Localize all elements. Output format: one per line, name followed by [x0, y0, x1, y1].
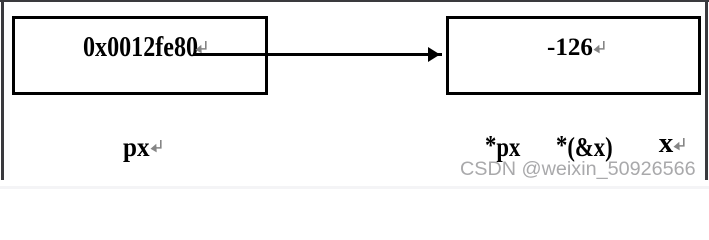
paragraph mark after x label [673, 138, 686, 151]
outer frame top border [0, 0, 709, 2]
outer frame left border [1, 0, 4, 180]
label x under right box [659, 129, 674, 158]
arrow head [428, 47, 440, 62]
label *px under right box [485, 134, 520, 161]
watermark CSDN [460, 159, 696, 179]
value box (right rectangle) [446, 16, 701, 95]
arrow wire from address to value box [193, 53, 442, 55]
value text -126 [547, 35, 593, 60]
paragraph mark after value [593, 41, 606, 54]
label px under left box [123, 134, 150, 161]
outer frame bottom light strip [0, 186, 709, 189]
label *(&x) under right box [556, 134, 613, 161]
paragraph mark after address [195, 41, 208, 54]
outer frame right border [705, 0, 708, 180]
pointer variable box (left rectangle) [12, 16, 268, 95]
address text 0x0012fe80 [83, 34, 198, 62]
paragraph mark after px label [150, 140, 163, 153]
